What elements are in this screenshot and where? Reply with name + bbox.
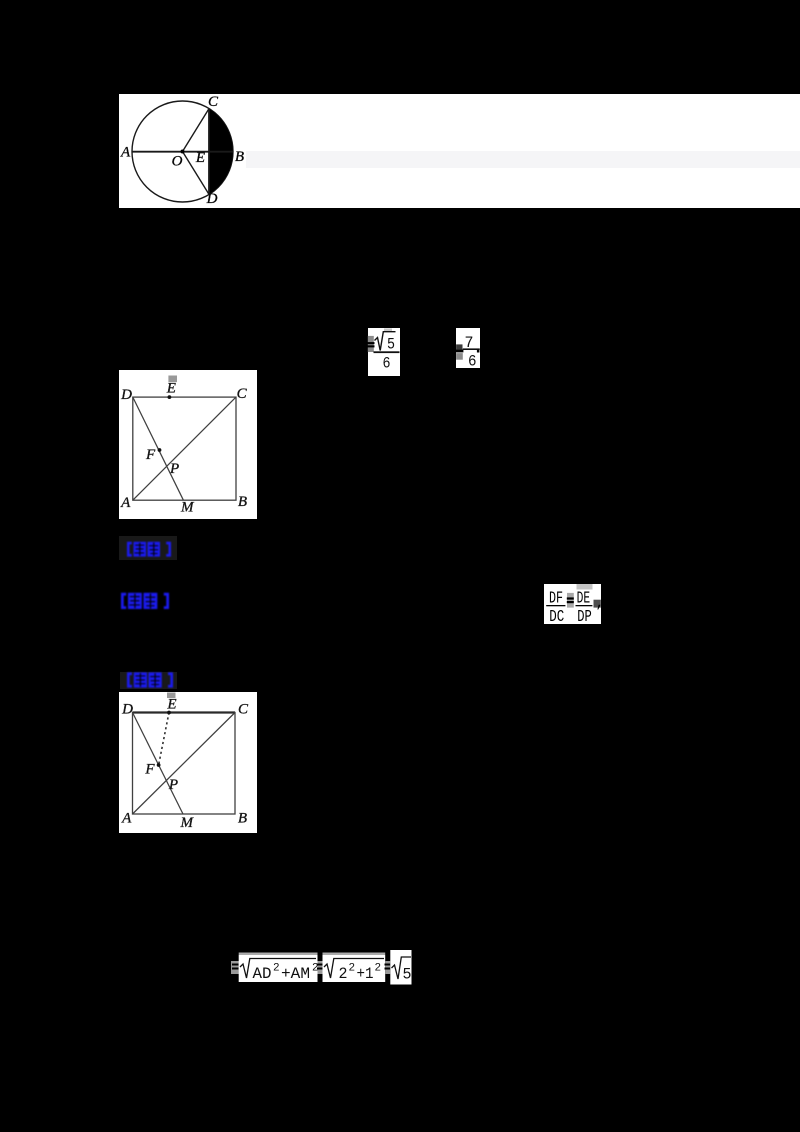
svg-text:5: 5	[403, 966, 412, 984]
square figure 1	[119, 370, 257, 519]
circle O outline	[132, 101, 233, 202]
svg-text:B: B	[238, 494, 247, 510]
svg-text:+1: +1	[357, 965, 374, 983]
line DM	[133, 713, 184, 815]
equals 2	[317, 964, 324, 966]
char blob 2	[148, 672, 161, 687]
white band behind circle figure	[119, 94, 800, 208]
svg-text:A: A	[120, 495, 131, 511]
gray patch equals 3	[385, 961, 390, 974]
svg-text:B: B	[235, 149, 244, 165]
equals sign	[367, 342, 374, 344]
glyph creases 2	[150, 676, 160, 677]
fraction bar	[374, 351, 400, 353]
fraction bar DF/DC	[546, 605, 565, 606]
white box	[119, 692, 257, 833]
blue heading 2 glyphs	[121, 592, 169, 610]
svg-text:5: 5	[387, 336, 395, 354]
gray strip in band	[246, 151, 800, 168]
point F dot	[157, 763, 161, 767]
svg-text:D: D	[120, 387, 132, 403]
black nub at bar left	[455, 349, 463, 352]
radius OD	[183, 152, 210, 195]
svg-text:D: D	[206, 191, 218, 207]
glyph creases 1	[129, 596, 139, 597]
blue heading 1 box	[119, 536, 177, 561]
svg-text:E: E	[166, 380, 176, 396]
radical 1	[240, 959, 316, 979]
square figure 2	[119, 692, 257, 833]
diagonal AC	[133, 713, 236, 815]
blue heading 3 glyphs	[127, 672, 173, 688]
white box sqrt(AD2+AM2)	[239, 955, 318, 982]
point E dot	[167, 711, 171, 715]
svg-text:F: F	[145, 447, 156, 463]
fraction box =sqrt(5)/6	[368, 328, 400, 376]
svg-text:M: M	[180, 500, 195, 516]
white box	[119, 370, 257, 519]
char blob 1	[128, 592, 142, 608]
svg-text:6: 6	[383, 355, 391, 373]
black segment right of chord CD	[209, 109, 233, 195]
svg-text:2: 2	[273, 963, 280, 975]
equals sign	[566, 597, 573, 599]
radical 2	[324, 959, 384, 979]
svg-text:E: E	[195, 150, 205, 166]
right bracket	[168, 672, 173, 687]
glyph creases 1	[135, 545, 144, 546]
top edge DC thick	[133, 711, 236, 713]
svg-text:+AM: +AM	[281, 965, 310, 983]
dotted line EF	[159, 713, 169, 766]
equals 1	[232, 964, 239, 966]
blue heading 1 glyphs	[127, 541, 171, 558]
svg-text:2: 2	[349, 963, 356, 975]
gray patch equals 1	[231, 961, 240, 974]
point F dot	[158, 448, 162, 452]
equals 3	[385, 964, 392, 966]
left bracket	[121, 592, 126, 608]
svg-text:B: B	[238, 811, 247, 827]
fraction bar DE/DP	[575, 605, 592, 606]
svg-text:6: 6	[468, 353, 477, 371]
svg-text:,: ,	[595, 595, 604, 612]
radius OC	[183, 109, 210, 152]
glyph creases 2	[145, 596, 155, 597]
char blob 2	[143, 592, 157, 608]
line DM	[133, 397, 184, 500]
gray patch above E	[167, 693, 176, 699]
square ABCD	[133, 397, 236, 500]
glyph creases 1	[135, 675, 145, 676]
gray patch top	[576, 584, 592, 590]
right bracket	[163, 592, 168, 608]
svg-text:C: C	[237, 386, 248, 402]
svg-text:O: O	[172, 154, 183, 170]
blue heading 3 box	[120, 672, 177, 690]
gray patch behind equals	[368, 336, 374, 352]
gray patch top right	[384, 328, 392, 331]
svg-text:D: D	[121, 702, 133, 718]
svg-text:P: P	[168, 777, 178, 793]
chord CD	[208, 109, 210, 195]
diameter AB	[132, 151, 233, 153]
dark patch behind comma	[593, 600, 600, 608]
white box sqrt(22+12)	[323, 955, 386, 982]
square ABCD	[133, 713, 236, 815]
fraction box 7/6	[456, 328, 480, 368]
circle figure	[119, 94, 259, 208]
diagonal AC	[133, 397, 236, 500]
glyph creases 2	[149, 545, 158, 546]
radical sqrt5	[375, 332, 396, 351]
white box sqrt5	[390, 950, 411, 985]
right bracket	[166, 542, 171, 557]
gray patch equals 2	[318, 961, 323, 974]
svg-text:DC: DC	[549, 608, 564, 624]
svg-text:P: P	[169, 461, 179, 477]
svg-text:C: C	[238, 702, 249, 718]
svg-text:C: C	[208, 94, 219, 110]
svg-text:AD: AD	[253, 965, 272, 983]
bottom formula strip	[228, 946, 418, 990]
center dot O	[181, 150, 185, 154]
char blob 1	[133, 672, 146, 687]
svg-text:F: F	[144, 762, 155, 778]
point E dot	[168, 395, 172, 399]
fraction bar	[463, 348, 480, 350]
svg-text:E: E	[166, 697, 176, 713]
dark patch left of bar	[456, 344, 462, 349]
left bracket	[127, 542, 132, 557]
svg-text:2: 2	[375, 963, 382, 975]
char blob 2	[147, 542, 160, 557]
radical 3	[392, 957, 412, 979]
gray patch below	[456, 353, 463, 360]
gray top strip box 2	[323, 953, 386, 956]
gray top strip box 1	[239, 953, 318, 956]
char blob 1	[133, 542, 146, 557]
left bracket	[127, 672, 132, 687]
gray patch behind equals	[567, 593, 574, 608]
formula DF/DC = DE/DP box	[544, 584, 601, 624]
gray patch above E	[168, 376, 177, 383]
svg-text:A: A	[120, 145, 131, 161]
black nub at bar right	[477, 350, 480, 353]
svg-text:DP: DP	[577, 608, 592, 624]
svg-text:M: M	[179, 815, 194, 831]
svg-text:A: A	[121, 811, 132, 827]
svg-text:2: 2	[339, 965, 348, 983]
